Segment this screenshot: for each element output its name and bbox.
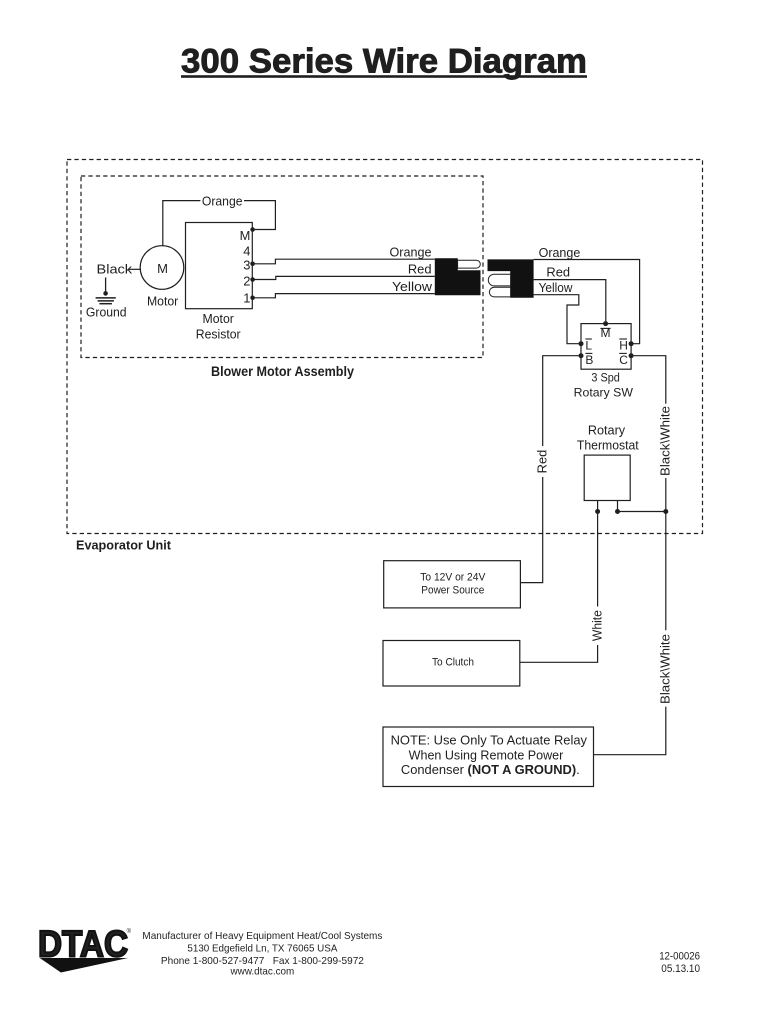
svg-text:Rotary: Rotary xyxy=(588,424,626,438)
svg-text:Thermostat: Thermostat xyxy=(577,439,639,453)
wire Orange motor to resistor pin M xyxy=(163,193,276,245)
svg-text:1: 1 xyxy=(243,291,250,306)
svg-text:Blower Motor Assembly: Blower Motor Assembly xyxy=(211,364,354,379)
ground xyxy=(86,278,127,320)
svg-text:5130 Edgefield Ln, TX 76065 US: 5130 Edgefield Ln, TX 76065 USA xyxy=(187,943,337,954)
wire Orange connector to switch H xyxy=(534,260,640,344)
switch pin B junction xyxy=(579,353,584,358)
wire Yellow connector to switch L xyxy=(534,295,579,344)
svg-text:When Using Remote Power: When Using Remote Power xyxy=(409,747,564,762)
wire Red switch B to power source xyxy=(520,356,578,583)
wire from pin 3 to connector xyxy=(253,259,435,264)
junction thermostat left terminal xyxy=(595,509,600,514)
svg-text:300 Series Wire Diagram: 300 Series Wire Diagram xyxy=(181,43,587,81)
svg-text:®: ® xyxy=(127,928,132,935)
evaporator unit dashed enclosure xyxy=(67,160,703,553)
svg-text:3: 3 xyxy=(243,258,250,273)
motor M1 xyxy=(140,246,184,309)
box To Clutch xyxy=(383,641,520,687)
box To 12V or 24V Power Source xyxy=(384,561,521,608)
svg-text:M: M xyxy=(157,261,168,276)
svg-text:Orange: Orange xyxy=(202,193,243,208)
svg-text:Red: Red xyxy=(546,264,570,279)
svg-text:05.13.10: 05.13.10 xyxy=(661,963,700,975)
rotary thermostat TH1 xyxy=(577,424,639,501)
svg-text:Motor: Motor xyxy=(147,294,179,309)
svg-text:Yellow: Yellow xyxy=(539,280,573,295)
junction pin 3 xyxy=(250,262,255,267)
svg-text:12-00026: 12-00026 xyxy=(659,950,700,962)
wire thermostat right terminal to Black\White xyxy=(618,501,666,512)
svg-text:C: C xyxy=(619,353,628,367)
wire from pin 2 to connector xyxy=(253,276,435,279)
svg-text:Ground: Ground xyxy=(86,305,127,320)
wire Red connector to switch M xyxy=(534,280,606,322)
junction thermostat right terminal xyxy=(615,509,620,514)
junction pin 2 xyxy=(250,277,255,282)
connector J2 female (harness side) xyxy=(488,259,534,297)
svg-text:L: L xyxy=(585,339,592,353)
svg-text:Yellow: Yellow xyxy=(392,279,433,294)
junction pin M xyxy=(250,227,255,232)
motor resistor R1 xyxy=(186,223,253,342)
switch pin M junction xyxy=(603,321,608,326)
svg-text:4: 4 xyxy=(243,244,250,259)
connector J1 male (blower side) xyxy=(435,258,481,295)
svg-text:To 12V or 24V: To 12V or 24V xyxy=(420,572,485,584)
title: 300 Series Wire Diagram xyxy=(181,43,587,81)
svg-text:Black\White: Black\White xyxy=(657,406,672,476)
switch pin C junction xyxy=(629,353,634,358)
svg-text:www.dtac.com: www.dtac.com xyxy=(230,967,295,978)
DTAC logo xyxy=(38,923,132,972)
wire thermostat left terminal down (White) xyxy=(520,501,605,663)
svg-text:Motor: Motor xyxy=(203,311,235,326)
junction Black\White at thermostat row xyxy=(663,509,668,514)
footer address block xyxy=(142,931,382,978)
svg-text:Rotary SW: Rotary SW xyxy=(574,385,634,399)
document number xyxy=(659,950,700,975)
svg-text:Black\White: Black\White xyxy=(657,634,672,704)
switch pin L junction xyxy=(579,341,584,346)
svg-text:Evaporator Unit: Evaporator Unit xyxy=(76,538,172,553)
junction pin 1 xyxy=(250,296,255,301)
svg-text:B: B xyxy=(585,353,593,367)
svg-text:Red: Red xyxy=(408,262,432,277)
svg-text:Condenser (NOT A GROUND).: Condenser (NOT A GROUND). xyxy=(401,762,580,777)
svg-text:Resistor: Resistor xyxy=(196,326,241,341)
svg-text:Black: Black xyxy=(97,261,133,276)
svg-text:Orange: Orange xyxy=(539,245,581,260)
switch pin H junction xyxy=(629,341,634,346)
wire from pin 1 to connector xyxy=(253,294,435,298)
svg-text:3 Spd: 3 Spd xyxy=(591,370,620,384)
rotary switch SW1 3 Spd xyxy=(574,324,634,400)
svg-text:Power Source: Power Source xyxy=(421,585,484,597)
svg-text:White: White xyxy=(589,610,604,641)
svg-text:H: H xyxy=(619,339,628,353)
wire Black\White switch C down xyxy=(594,356,673,755)
svg-text:To Clutch: To Clutch xyxy=(432,657,474,669)
svg-text:Phone 1-800-527-9477 Fax 1-8: Phone 1-800-527-9477 Fax 1-800-299-5972 xyxy=(161,956,364,967)
svg-text:Manufacturer of Heavy Equipmen: Manufacturer of Heavy Equipment Heat/Coo… xyxy=(142,931,382,942)
svg-text:NOTE: Use Only To Actuate Rela: NOTE: Use Only To Actuate Relay xyxy=(391,733,588,748)
wire Black to motor xyxy=(97,261,141,276)
svg-text:2: 2 xyxy=(243,273,250,288)
blower motor assembly dashed enclosure xyxy=(81,176,483,379)
svg-text:M: M xyxy=(240,228,251,243)
svg-text:Red: Red xyxy=(534,450,549,474)
svg-text:Orange: Orange xyxy=(390,244,432,259)
note box xyxy=(383,727,594,787)
